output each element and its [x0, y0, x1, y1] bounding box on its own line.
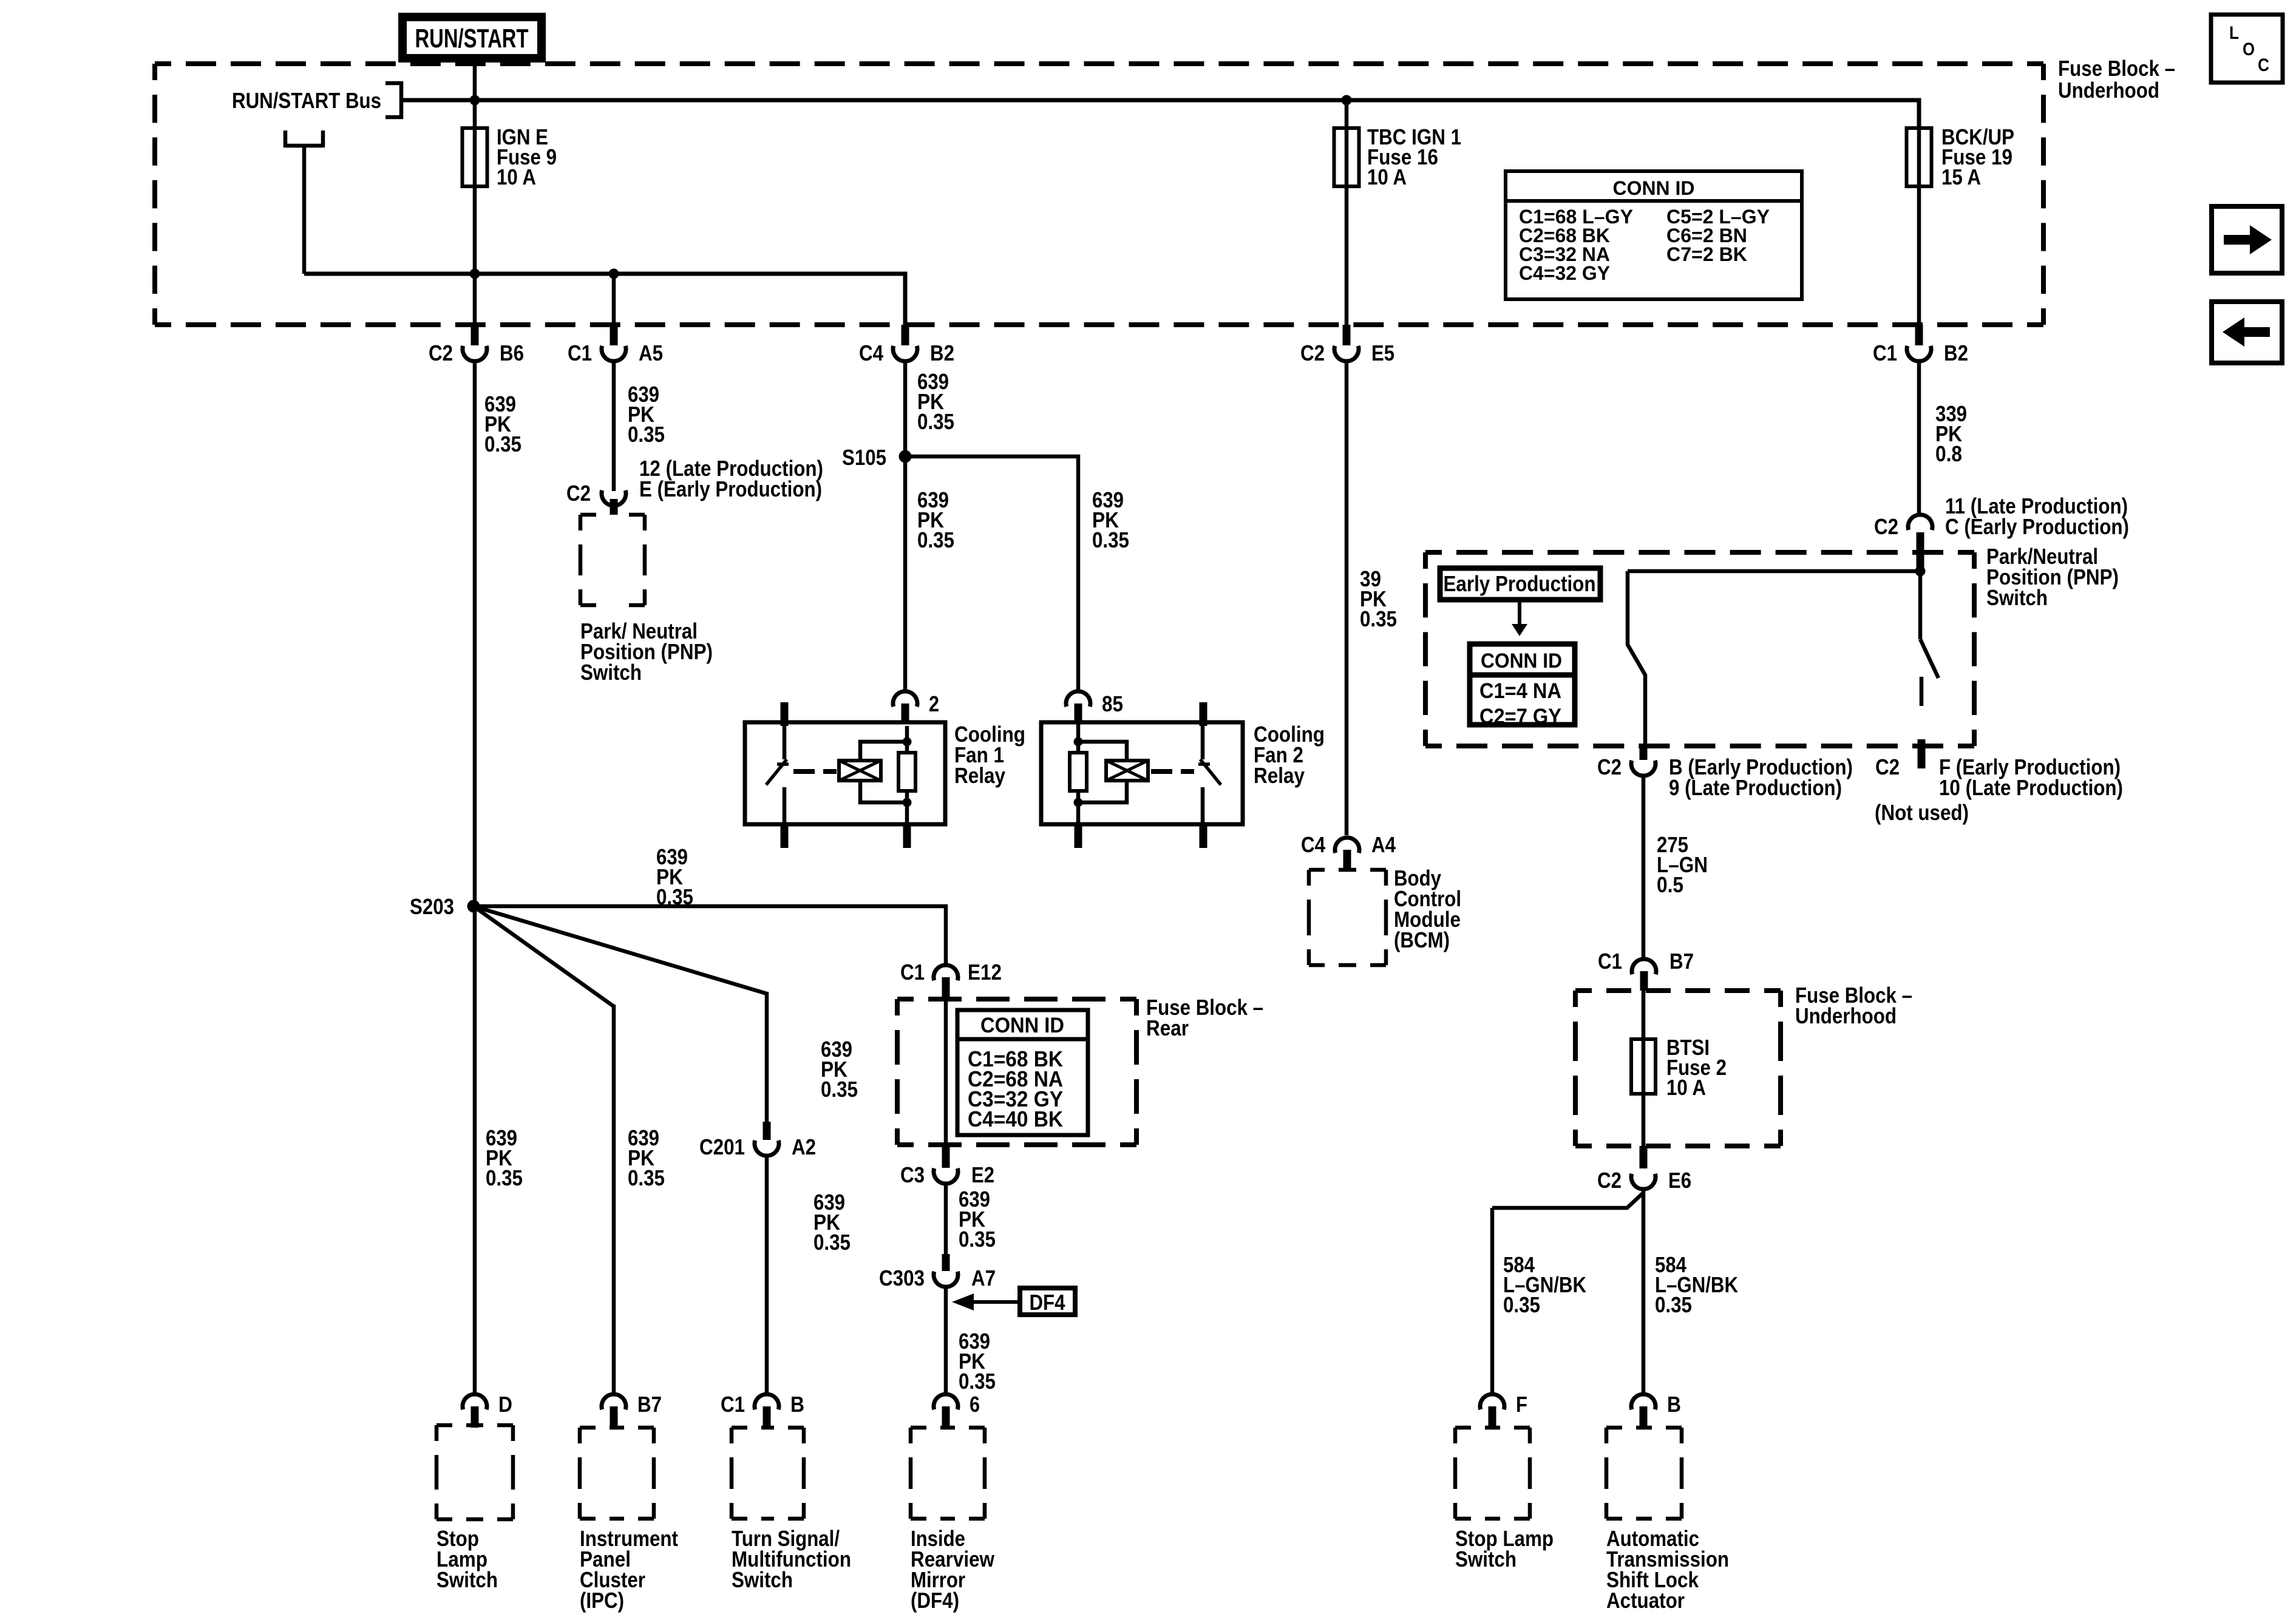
- connector C2 E6: [1597, 1146, 1691, 1193]
- connector C303 A7: [879, 1254, 996, 1290]
- connector 85 cooling fan 2 relay: [1066, 691, 1123, 722]
- svg-text:Switch: Switch: [1986, 585, 2048, 610]
- label Stop Lamp Switch: [436, 1526, 498, 1592]
- relay 1 pin stubs: [784, 702, 907, 848]
- label B 9 production: [1669, 754, 1853, 800]
- svg-text:C2: C2: [1300, 341, 1325, 365]
- Fuse Block - Rear dashed box: [897, 999, 1136, 1145]
- svg-text:E5: E5: [1371, 341, 1394, 365]
- svg-text:0.35: 0.35: [1655, 1292, 1692, 1317]
- stub bracket: [285, 131, 323, 147]
- CONN ID table underhood: [1506, 171, 1802, 299]
- label Not used: [1875, 800, 1969, 825]
- wire S203 to stop lamp switch: [473, 906, 477, 1394]
- relay 1 resistor: [898, 753, 915, 791]
- bus wire horizontal: [403, 100, 1919, 129]
- svg-text:CONN ID: CONN ID: [1481, 649, 1562, 673]
- svg-text:Relay: Relay: [1254, 763, 1305, 788]
- wire through TBC fuse: [1345, 100, 1349, 325]
- svg-text:CONN ID: CONN ID: [1613, 177, 1695, 199]
- wire C201 to turn signal switch: [765, 1155, 769, 1394]
- wire E5 to BCM: [1345, 361, 1349, 835]
- svg-text:A7: A7: [971, 1266, 996, 1290]
- Early Production arrow: [1512, 599, 1527, 636]
- connector C1 B2: [1873, 325, 1968, 365]
- svg-text:(DF4): (DF4): [911, 1588, 959, 1613]
- wire label 639 PK 0.35 fan2: [1092, 487, 1129, 552]
- wire E6 to actuator: [1642, 1188, 1646, 1394]
- svg-text:C4: C4: [859, 341, 883, 365]
- wire label 639 PK 0.35 B2: [917, 369, 954, 434]
- svg-text:C1: C1: [1598, 949, 1622, 974]
- svg-text:2: 2: [929, 691, 939, 716]
- label 11 C production: [1945, 493, 2129, 539]
- Park Neutral Position Switch dashed box: [1425, 552, 1974, 746]
- wire S105 to fan2 branch: [905, 456, 1078, 692]
- box Instrument Panel Cluster: [580, 1428, 654, 1519]
- svg-text:0.35: 0.35: [1092, 527, 1129, 552]
- fuse TBC IGN 1 Fuse 16: [1334, 128, 1359, 186]
- wire lower bus to A5: [612, 274, 616, 325]
- svg-text:Switch: Switch: [732, 1567, 793, 1592]
- relay 1 switch: [766, 726, 789, 824]
- svg-text:0.35: 0.35: [1360, 606, 1397, 631]
- svg-text:0.5: 0.5: [1657, 872, 1683, 897]
- connector 6 inside rearview mirror: [934, 1392, 980, 1428]
- label Fuse Block - Underhood: [2058, 56, 2175, 103]
- label Instrument Panel Cluster IPC: [580, 1526, 678, 1613]
- CONN ID table rear: [957, 1010, 1088, 1135]
- label Fuse Block - Rear: [1146, 995, 1263, 1040]
- connector C2 F stub: [1875, 739, 1921, 779]
- svg-text:C2: C2: [566, 481, 591, 506]
- box Body Control Module: [1309, 870, 1386, 965]
- label Fuse Block - Underhood 2: [1795, 983, 1912, 1028]
- relay 1 coil bracket: [860, 742, 907, 802]
- connector B shift lock actuator: [1631, 1392, 1681, 1428]
- svg-text:0.8: 0.8: [1935, 441, 1962, 466]
- svg-text:Switch: Switch: [580, 660, 642, 685]
- svg-text:S105: S105: [842, 445, 886, 470]
- wire through BCK/UP fuse: [1917, 128, 1921, 325]
- wire S105 to fan1 relay: [903, 456, 908, 692]
- label F 10 production: [1939, 754, 2123, 800]
- svg-text:C2: C2: [429, 341, 453, 365]
- wire B2 to S105: [903, 361, 908, 456]
- svg-text:(Not used): (Not used): [1875, 800, 1969, 825]
- relay 2 coil: [1106, 761, 1148, 781]
- svg-text:B7: B7: [1669, 949, 1694, 974]
- svg-text:D: D: [498, 1392, 512, 1417]
- DF4 reference box: [1020, 1288, 1075, 1315]
- svg-text:C2: C2: [1597, 754, 1622, 779]
- svg-text:C7=2 BK: C7=2 BK: [1666, 243, 1747, 265]
- label BCK/UP Fuse 19 15 A: [1941, 124, 2014, 189]
- svg-text:F: F: [1516, 1392, 1527, 1417]
- connector C2 PNP right: [1874, 514, 1932, 570]
- svg-text:10 (Late Production): 10 (Late Production): [1939, 775, 2123, 800]
- svg-text:Underhood: Underhood: [1795, 1003, 1897, 1028]
- svg-text:0.35: 0.35: [484, 432, 521, 456]
- junction dots lower bus: [470, 269, 619, 279]
- svg-text:E6: E6: [1668, 1168, 1691, 1193]
- svg-text:C1=4 NA: C1=4 NA: [1479, 679, 1561, 703]
- relay 1 coil feed: [903, 726, 912, 807]
- svg-text:B: B: [1667, 1392, 1681, 1417]
- svg-text:B: B: [790, 1392, 804, 1417]
- svg-text:E12: E12: [968, 960, 1002, 985]
- svg-text:C2=7 GY: C2=7 GY: [1479, 705, 1561, 728]
- wire through rear fuse block: [944, 999, 948, 1145]
- connector C4 B2: [859, 325, 954, 365]
- PNP fixed contact F: [1920, 677, 1924, 706]
- relay 1 actuation dashes: [793, 769, 837, 774]
- label Inside Rearview Mirror DF4: [911, 1526, 995, 1613]
- svg-text:Underhood: Underhood: [2058, 78, 2159, 103]
- svg-text:Rear: Rear: [1146, 1015, 1189, 1040]
- wire E2 to C303: [944, 1183, 948, 1254]
- box Turn Signal Multifunction Switch: [732, 1428, 804, 1519]
- label IGN E Fuse 9 10 A: [497, 124, 557, 189]
- svg-text:0.35: 0.35: [813, 1230, 851, 1255]
- bus bracket: [385, 81, 403, 119]
- wire label 639 PK 0.35 turn signal upper: [821, 1037, 858, 1102]
- svg-text:DF4: DF4: [1030, 1290, 1065, 1315]
- wire A5 to C2 PNP: [612, 361, 616, 491]
- wire E6 branch to stop lamp switch: [1492, 1193, 1643, 1394]
- label Park Neutral Position PNP Switch: [1986, 544, 2119, 610]
- svg-text:C1: C1: [900, 960, 925, 985]
- DF4 arrow: [952, 1293, 1020, 1310]
- relay 1 resistor lower wire: [905, 791, 909, 824]
- svg-text:E2: E2: [971, 1162, 994, 1187]
- box Stop Lamp Switch right: [1455, 1428, 1530, 1519]
- wire label 275 L-GN 0.5: [1657, 832, 1708, 897]
- wire label 639 PK 0.35 S203: [656, 844, 693, 909]
- svg-text:(IPC): (IPC): [580, 1588, 624, 1613]
- splice S203: [410, 894, 480, 919]
- svg-text:0.35: 0.35: [628, 1165, 665, 1190]
- wire label 639 PK 0.35 A5: [628, 382, 665, 447]
- connector C201 A2: [699, 1122, 816, 1159]
- svg-text:0.35: 0.35: [486, 1165, 523, 1190]
- relay 2 pin stubs: [1078, 702, 1203, 848]
- PNP switch blade: [1920, 571, 1938, 678]
- Fuse Block - Underhood 2 dashed box: [1575, 991, 1781, 1146]
- svg-text:B2: B2: [930, 341, 954, 365]
- junction dots on bus: [470, 95, 1352, 106]
- svg-text:C1: C1: [1873, 341, 1897, 365]
- connector C2 B PNP bottom: [1597, 746, 1656, 779]
- svg-text:A2: A2: [792, 1134, 816, 1159]
- svg-text:B6: B6: [500, 341, 524, 365]
- svg-text:0.35: 0.35: [1503, 1292, 1540, 1317]
- svg-text:6: 6: [970, 1392, 980, 1417]
- svg-text:B7: B7: [637, 1392, 662, 1417]
- svg-text:CONN ID: CONN ID: [980, 1014, 1064, 1037]
- svg-text:Switch: Switch: [1455, 1547, 1517, 1571]
- svg-text:C (Early Production): C (Early Production): [1945, 514, 2129, 539]
- label Cooling Fan 1 Relay: [954, 722, 1025, 788]
- box Stop Lamp Switch: [436, 1425, 513, 1519]
- connector C3 E2: [900, 1146, 994, 1187]
- wire label 584 L-GN/BK 0.35 right: [1655, 1252, 1738, 1317]
- svg-text:C2: C2: [1874, 514, 1898, 539]
- relay 2 actuation dashes: [1151, 769, 1194, 774]
- connector C1 E12: [900, 960, 1002, 999]
- svg-text:10 A: 10 A: [497, 164, 536, 189]
- relay 2 resistor lower wire: [1076, 791, 1081, 824]
- connector C2 E5: [1300, 325, 1394, 365]
- fuse BTSI Fuse 2: [1631, 1039, 1656, 1094]
- svg-text:10 A: 10 A: [1666, 1075, 1706, 1100]
- svg-text:Switch: Switch: [436, 1567, 498, 1592]
- svg-text:E (Early Production): E (Early Production): [639, 476, 822, 501]
- svg-text:0.35: 0.35: [628, 422, 665, 447]
- connector C4 A4: [1301, 832, 1396, 870]
- connector C2 PNP switch: [566, 481, 626, 515]
- relay 2 switch: [1198, 726, 1221, 824]
- connector D stop lamp switch: [463, 1392, 512, 1428]
- svg-text:C201: C201: [699, 1134, 745, 1159]
- label Automatic Transmission Shift Lock Actuator: [1606, 1526, 1729, 1613]
- cooling fan 1 relay box: [745, 722, 945, 824]
- svg-text:A5: A5: [639, 341, 663, 365]
- wire label 39 PK 0.35: [1360, 566, 1397, 631]
- svg-text:C1: C1: [568, 341, 592, 365]
- box Automatic Transmission Shift Lock Actuator: [1606, 1428, 1682, 1519]
- svg-text:C4=40 BK: C4=40 BK: [968, 1107, 1063, 1131]
- label Turn Signal Multifunction Switch: [732, 1526, 851, 1592]
- box Inside Rearview Mirror: [911, 1428, 985, 1519]
- wire label 639 PK 0.35 stop lamp: [486, 1125, 523, 1190]
- svg-text:RUN/START: RUN/START: [415, 24, 529, 53]
- wire label 639 PK 0.35 A7: [959, 1329, 996, 1394]
- wire B2 to PNP: [1917, 361, 1921, 513]
- connector C1 A5: [568, 325, 663, 365]
- svg-text:RUN/START Bus: RUN/START Bus: [232, 88, 381, 113]
- label Body Control Module BCM: [1394, 866, 1461, 952]
- PNP switch pole to B: [1628, 571, 1645, 746]
- label TBC IGN 1 Fuse 16 10 A: [1367, 124, 1461, 189]
- arrow box left: [2212, 302, 2282, 363]
- wire B to B7: [1642, 775, 1646, 959]
- connector B7 instrument panel cluster: [602, 1392, 662, 1428]
- label Cooling Fan 2 Relay: [1254, 722, 1325, 788]
- fuse BCK/UP Fuse 19: [1907, 128, 1932, 186]
- connector F stop lamp switch: [1480, 1392, 1527, 1428]
- wire through BTSI fuse: [1642, 991, 1646, 1146]
- svg-text:85: 85: [1102, 691, 1123, 716]
- svg-text:C2: C2: [1875, 754, 1900, 779]
- svg-text:C3: C3: [900, 1162, 925, 1187]
- wire C303 to mirror: [944, 1286, 948, 1394]
- wire label 339 PK 0.8: [1935, 401, 1967, 466]
- wire label 639 PK 0.35 IPC: [628, 1125, 665, 1190]
- label RUN/START Bus: [232, 88, 381, 113]
- svg-text:O: O: [2243, 39, 2255, 59]
- wire through IGN E fuse: [473, 128, 477, 325]
- svg-text:C2: C2: [1597, 1168, 1622, 1193]
- svg-text:C4: C4: [1301, 832, 1325, 857]
- svg-text:(BCM): (BCM): [1394, 927, 1450, 952]
- cooling fan 2 relay box: [1041, 722, 1243, 824]
- svg-text:0.35: 0.35: [917, 527, 954, 552]
- wire from bracket down: [302, 147, 307, 274]
- svg-text:0.35: 0.35: [917, 409, 954, 434]
- svg-text:L: L: [2229, 23, 2239, 43]
- svg-text:0.35: 0.35: [959, 1369, 996, 1394]
- connector 2 cooling fan 1 relay: [893, 691, 939, 722]
- relay 1 coil: [839, 761, 881, 781]
- wire label 639 PK 0.35 fan1: [917, 487, 954, 552]
- Fuse Block - Underhood dashed box: [155, 64, 2043, 325]
- LOC reference box: [2211, 15, 2283, 83]
- svg-text:S203: S203: [410, 894, 454, 919]
- arrow box right: [2212, 206, 2282, 273]
- connector C2 B6: [429, 325, 524, 365]
- svg-text:9 (Late Production): 9 (Late Production): [1669, 775, 1842, 800]
- svg-text:C1: C1: [721, 1392, 745, 1417]
- svg-text:C4=32 GY: C4=32 GY: [1519, 262, 1610, 284]
- wire label 639 PK 0.35 B6: [484, 392, 521, 456]
- Early Production callout box: [1440, 568, 1600, 600]
- svg-text:C303: C303: [879, 1266, 925, 1290]
- label 12 E production: [639, 456, 823, 501]
- wire S203 to IPC: [474, 906, 614, 1394]
- splice S105: [842, 445, 912, 470]
- svg-text:15 A: 15 A: [1941, 164, 1981, 189]
- wire S203 to C201: [474, 906, 767, 1123]
- svg-text:Early Production: Early Production: [1444, 571, 1596, 596]
- fuse IGN E Fuse 9: [463, 128, 487, 186]
- svg-text:Fuse Block –: Fuse Block –: [2058, 56, 2175, 81]
- relay 2 coil feed: [1074, 722, 1083, 807]
- box Park/Neutral Position Switch left: [580, 515, 645, 605]
- label BTSI Fuse 2 10 A: [1666, 1035, 1727, 1100]
- lower bus wire: [304, 274, 905, 326]
- PNP internal node wire: [1628, 566, 1926, 577]
- svg-text:A4: A4: [1371, 832, 1396, 857]
- connector C1 B7: [1598, 949, 1694, 991]
- svg-text:C: C: [2258, 55, 2269, 75]
- relay 2 resistor: [1070, 753, 1087, 791]
- label Stop Lamp Switch right: [1455, 1526, 1554, 1571]
- wire S203 to E12: [474, 906, 946, 965]
- svg-text:B2: B2: [1944, 341, 1968, 365]
- svg-text:Relay: Relay: [954, 763, 1005, 788]
- svg-text:Actuator: Actuator: [1606, 1588, 1685, 1613]
- wire B6 to S203: [473, 361, 477, 906]
- wire label 639 PK 0.35 turn signal lower: [813, 1190, 851, 1255]
- wire RUN/START to IGN E fuse: [473, 58, 477, 128]
- relay 2 coil bracket: [1078, 742, 1127, 802]
- connector C1 B turn signal: [721, 1392, 804, 1428]
- CONN ID table PNP: [1467, 644, 1576, 728]
- svg-text:0.35: 0.35: [959, 1227, 996, 1252]
- RUN/START power label box: [402, 17, 542, 58]
- wire label 639 PK 0.35 E2: [959, 1187, 996, 1252]
- svg-text:0.35: 0.35: [821, 1077, 858, 1102]
- wire label 584 L-GN/BK 0.35 left: [1503, 1252, 1586, 1317]
- svg-text:10 A: 10 A: [1367, 164, 1407, 189]
- label Park Neutral Position Switch: [580, 619, 713, 685]
